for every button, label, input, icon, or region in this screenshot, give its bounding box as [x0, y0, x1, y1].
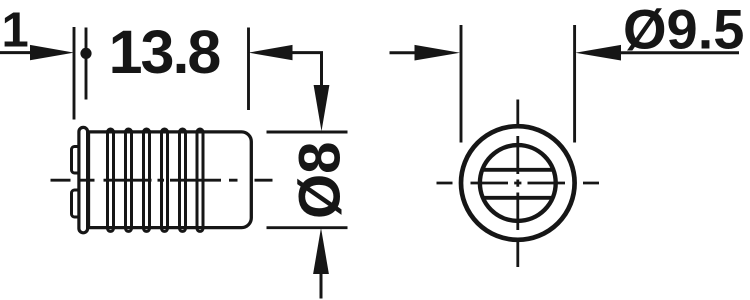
- front view inner circle: [480, 145, 556, 221]
- extension line Ø9.5 right (x=574.6): [573, 25, 576, 143]
- slot lower chord line: [483, 196, 553, 200]
- horizontal centerline of front view: [437, 182, 600, 185]
- front view outer circle: [461, 126, 575, 240]
- extension line right of 13.8 (x=248.5): [247, 28, 250, 111]
- arrowhead Ø8 pointing down: [314, 85, 330, 131]
- rib fin 4: [162, 129, 168, 231]
- arrowhead Ø9.5 pointing left: [575, 45, 621, 61]
- flange collar: [79, 127, 88, 232]
- rib fin 2: [126, 129, 132, 231]
- sleeve body outline: [89, 132, 252, 228]
- tail of Ø9.5 left arrow: [390, 51, 417, 54]
- rib fin 1: [108, 129, 114, 231]
- bottom extension line of Ø8: [267, 226, 348, 229]
- slot upper chord line: [483, 168, 553, 172]
- rib fin 3: [144, 129, 150, 231]
- svg-text:Ø9.5: Ø9.5: [623, 0, 744, 61]
- extension line left (x=74): [73, 27, 76, 120]
- vertical centerline of front view: [516, 100, 519, 268]
- tail of Ø8 lower arrow: [320, 274, 323, 299]
- extension line second (x=86): [85, 28, 88, 100]
- svg-text:1: 1: [2, 4, 29, 58]
- svg-text:Ø8: Ø8: [288, 142, 353, 219]
- centerline of side view: [51, 179, 273, 182]
- arrowhead dim 1 pointing right: [30, 45, 74, 60]
- extension line Ø9.5 left (x=461): [460, 25, 463, 143]
- rib fin 6: [197, 129, 203, 231]
- dimension dot on line x=86: [80, 48, 91, 59]
- top extension line of Ø8: [267, 131, 348, 134]
- rib fin 5: [180, 129, 186, 231]
- arrowhead Ø9.5 pointing right: [415, 45, 461, 61]
- leader line for dim 1: [0, 51, 33, 54]
- svg-text:13.8: 13.8: [109, 18, 221, 86]
- leader from 13.8 arrow to Ø8 dim corner: [292, 53, 322, 86]
- arrowhead Ø8 pointing up: [313, 228, 329, 274]
- retaining tab lower: [72, 190, 81, 217]
- arrowhead 13.8 pointing left: [249, 45, 293, 60]
- retaining tab upper: [72, 147, 81, 174]
- tail of Ø9.5 right arrow under label: [620, 51, 739, 54]
